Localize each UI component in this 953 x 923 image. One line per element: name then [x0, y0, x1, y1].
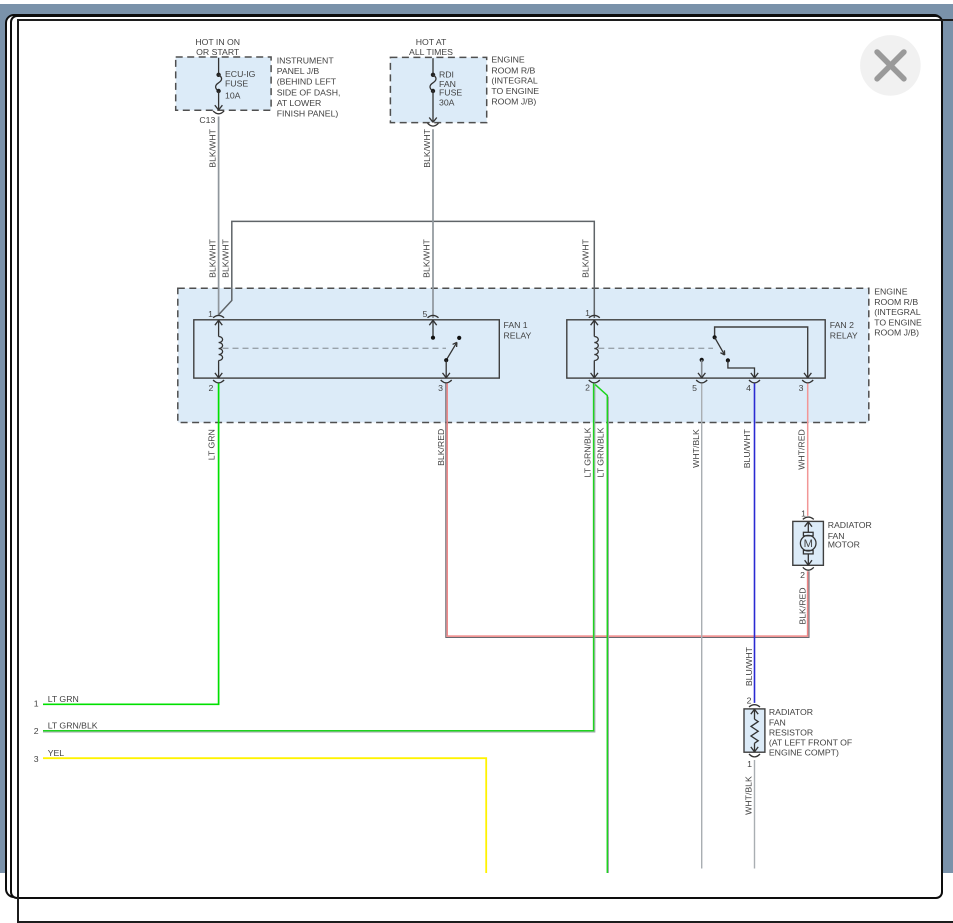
svg-text:2: 2	[34, 726, 39, 736]
svg-text:4: 4	[746, 383, 751, 393]
svg-text:5: 5	[423, 309, 428, 319]
FAN 1 relay internal dashed link	[223, 347, 447, 349]
svg-text:OR START: OR START	[196, 47, 240, 57]
svg-text:RADIATOR: RADIATOR	[828, 520, 872, 530]
svg-text:FAN 2: FAN 2	[830, 320, 854, 330]
svg-text:FAN: FAN	[769, 718, 786, 728]
node 3: connector pin 3 wire label YEL	[34, 748, 64, 764]
relay U1: FAN 1 RELAY box	[194, 320, 532, 378]
svg-text:(BEHIND LEFT: (BEHIND LEFT	[277, 77, 337, 87]
svg-text:1: 1	[585, 308, 590, 318]
svg-text:PANEL J/B: PANEL J/B	[277, 66, 320, 76]
svg-text:FUSE: FUSE	[439, 87, 462, 97]
wire BLK/WHT from ECU-IG fuse to FAN 1 relay pin 1	[208, 117, 219, 315]
wire WHT/BLK from resistor pin 1	[743, 760, 754, 869]
svg-text:BLK/WHT: BLK/WHT	[208, 239, 218, 278]
svg-text:AT LOWER: AT LOWER	[277, 98, 322, 108]
svg-text:BLK/WHT: BLK/WHT	[221, 239, 231, 278]
svg-text:30A: 30A	[439, 98, 455, 108]
relay U2: FAN 2 RELAY box	[567, 320, 858, 378]
close button	[860, 35, 921, 96]
svg-text:1: 1	[801, 509, 806, 519]
connector below RDI FAN fuse	[428, 123, 439, 126]
svg-text:RELAY: RELAY	[504, 330, 532, 340]
wire LT GRN/BLK branch from FAN 2 pin 2 going down	[595, 385, 608, 873]
svg-text:C13: C13	[199, 115, 215, 125]
svg-text:ROOM J/B): ROOM J/B)	[491, 97, 536, 107]
FAN 1 relay switch (pin 5 to pin 3)	[428, 315, 462, 382]
svg-text:(AT LEFT FRONT OF: (AT LEFT FRONT OF	[769, 737, 852, 747]
svg-text:LT GRN/BLK: LT GRN/BLK	[583, 427, 593, 477]
svg-text:INSTRUMENT: INSTRUMENT	[277, 56, 335, 66]
wire WHT/BLK from FAN 2 pin 5	[691, 383, 702, 868]
wire YEL from connector pin 3	[43, 758, 486, 873]
svg-text:LT GRN/BLK: LT GRN/BLK	[595, 427, 605, 477]
svg-text:BLU/WHT: BLU/WHT	[742, 428, 752, 468]
svg-text:ENGINE: ENGINE	[491, 55, 525, 65]
connector C13	[199, 111, 224, 125]
FAN 2 relay internal dashed link	[598, 347, 713, 349]
svg-text:1: 1	[747, 759, 752, 769]
svg-text:FINISH PANEL): FINISH PANEL)	[277, 108, 339, 118]
svg-text:LT GRN: LT GRN	[206, 429, 216, 460]
svg-text:2: 2	[747, 696, 752, 706]
svg-text:LT GRN/BLK: LT GRN/BLK	[48, 721, 98, 731]
svg-text:M: M	[804, 538, 813, 550]
junction block box: ENGINE ROOM R/B fuse box	[390, 37, 539, 123]
svg-text:RESISTOR: RESISTOR	[769, 727, 813, 737]
svg-text:WHT/BLK: WHT/BLK	[691, 429, 701, 468]
svg-text:ROOM R/B: ROOM R/B	[874, 297, 918, 307]
svg-text:ROOM J/B): ROOM J/B)	[874, 328, 919, 338]
junction block J/B box: ENGINE ROOM R/B (relay box)	[178, 287, 922, 423]
fuse ECU-IG FUSE 10A	[215, 58, 256, 110]
svg-text:(INTEGRAL: (INTEGRAL	[874, 307, 921, 317]
svg-text:ENGINE COMPT): ENGINE COMPT)	[769, 747, 839, 757]
wire LT GRN/BLK from FAN 2 pin 2 to connector pin 2	[43, 383, 595, 732]
svg-text:HOT IN ON: HOT IN ON	[195, 37, 240, 47]
svg-text:BLK/WHT: BLK/WHT	[422, 128, 432, 167]
svg-text:SIDE OF DASH,: SIDE OF DASH,	[277, 88, 341, 98]
svg-text:FUSE: FUSE	[225, 79, 248, 89]
svg-text:1: 1	[34, 699, 39, 709]
wire WHT/RED from FAN 2 pin 3 to radiator fan motor pin 1	[797, 383, 808, 516]
svg-text:YEL: YEL	[48, 748, 65, 758]
FAN 2 relay switch (pins 5 / 4 / 3)	[696, 327, 813, 383]
svg-text:FAN 1: FAN 1	[504, 320, 528, 330]
resistor R1: RADIATOR FAN RESISTOR	[744, 705, 852, 758]
svg-text:ECU-IG: ECU-IG	[225, 69, 256, 79]
svg-text:WHT/BLK: WHT/BLK	[743, 776, 753, 815]
svg-text:BLK/WHT: BLK/WHT	[208, 128, 218, 167]
svg-text:3: 3	[799, 383, 804, 393]
svg-text:BLK/RED: BLK/RED	[436, 429, 446, 466]
FAN 2 relay coil (pin 1 to pin 2)	[589, 315, 600, 382]
svg-text:3: 3	[34, 754, 39, 764]
svg-text:5: 5	[692, 383, 697, 393]
FAN 1 relay coil (pin 1 to pin 2)	[213, 315, 224, 382]
svg-text:2: 2	[585, 383, 590, 393]
wire BLK/WHT branch from FAN 1 pin 1 to FAN 2 relay pin 1	[219, 221, 595, 318]
wire BLU/WHT from FAN 2 pin 4 to resistor pin 2	[742, 383, 754, 703]
svg-text:2: 2	[800, 570, 805, 580]
wire BLK/RED from FAN 1 pin 3 to radiator fan motor pin 2	[436, 383, 809, 637]
svg-text:1: 1	[208, 309, 213, 319]
svg-text:ALL TIMES: ALL TIMES	[409, 47, 453, 57]
node 2: connector pin 2 wire label LT GRN/BLK	[34, 721, 98, 737]
wire LT GRN from FAN 1 pin 2 to connector pin 1	[43, 383, 219, 704]
fuse RDI FAN FUSE 30A	[429, 58, 462, 122]
svg-text:RADIATOR: RADIATOR	[769, 707, 813, 717]
svg-text:(INTEGRAL: (INTEGRAL	[491, 76, 538, 86]
svg-text:2: 2	[209, 383, 214, 393]
svg-text:ROOM R/B: ROOM R/B	[491, 65, 535, 75]
svg-text:ENGINE: ENGINE	[874, 287, 908, 297]
junction block box: INSTRUMENT PANEL J/B with fuse ECU-IG	[176, 37, 341, 118]
svg-text:LT GRN: LT GRN	[48, 694, 79, 704]
svg-text:RELAY: RELAY	[830, 330, 858, 340]
svg-text:BLK/RED: BLK/RED	[798, 587, 808, 624]
svg-text:BLK/WHT: BLK/WHT	[581, 239, 591, 278]
svg-text:BLU/WHT: BLU/WHT	[744, 646, 754, 686]
svg-text:3: 3	[438, 383, 443, 393]
svg-text:TO ENGINE: TO ENGINE	[874, 317, 922, 327]
svg-text:MOTOR: MOTOR	[828, 540, 860, 550]
svg-text:HOT AT: HOT AT	[416, 37, 447, 47]
svg-text:WHT/RED: WHT/RED	[797, 429, 807, 470]
svg-text:BLK/WHT: BLK/WHT	[421, 239, 431, 278]
wire BLK/WHT from RDI FAN fuse to FAN 1 relay pin 5	[421, 128, 433, 318]
svg-text:TO ENGINE: TO ENGINE	[491, 86, 539, 96]
node 1: connector pin 1 wire label LT GRN	[34, 694, 79, 709]
svg-text:10A: 10A	[225, 91, 241, 101]
motor M1: RADIATOR FAN MOTOR	[793, 517, 872, 570]
